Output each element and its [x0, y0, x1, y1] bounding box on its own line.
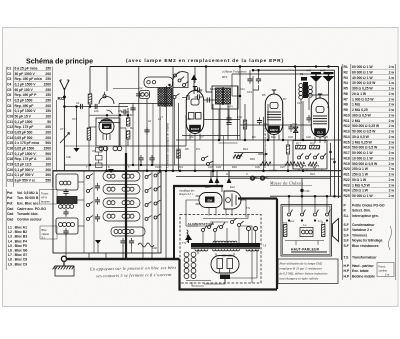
capacitor C unit A — [63, 189, 68, 197]
svg-text:EBF2: EBF2 — [270, 128, 278, 132]
node junction — [179, 169, 182, 172]
wire — [314, 169, 316, 171]
svg-text:Commande automatique de volume: Commande automatique de volume — [166, 122, 170, 168]
svg-text:R11: R11 — [271, 135, 276, 139]
svg-text:S.F: S.F — [344, 223, 349, 227]
svg-text:Interrupteur gén.: Interrupteur gén. — [352, 214, 379, 218]
wire x133 — [132, 103, 134, 165]
wire — [258, 70, 260, 76]
wire rail 3 — [232, 73, 331, 75]
handwritten note bottom left — [89, 265, 177, 279]
svg-text:200: 200 — [45, 125, 51, 129]
coil C loops — [59, 223, 75, 227]
svg-text:R3: R3 — [344, 76, 348, 80]
wire — [182, 97, 187, 99]
HP terminal 2 — [301, 219, 303, 221]
resistor R6 — [243, 120, 246, 129]
svg-text:Cad: Cad — [7, 217, 13, 221]
svg-text:H.P: H.P — [344, 269, 350, 273]
wire above thick bus — [125, 128, 127, 153]
wire hp2 — [317, 241, 319, 246]
svg-text:500 000 Ω 0,25 W: 500 000 Ω 0,25 W — [352, 124, 380, 128]
contact colA 2 — [87, 190, 90, 193]
wire left frame — [56, 100, 58, 171]
node junction — [239, 95, 242, 98]
switch contact T4 — [321, 156, 324, 159]
svg-text:R6: R6 — [344, 92, 348, 96]
coil unit C box — [56, 218, 78, 234]
svg-text:C19b: C19b — [155, 165, 162, 169]
resistor ladder r2 — [96, 156, 103, 161]
svg-text:2 x 175 pF mica: 2 x 175 pF mica — [15, 141, 40, 145]
node junction — [239, 65, 242, 68]
svg-text:2 w: 2 w — [389, 157, 395, 161]
wire osc line 2 — [172, 67, 174, 172]
svg-text:2 w: 2 w — [389, 140, 395, 144]
svg-text:C26: C26 — [255, 165, 260, 169]
svg-text:EL3: EL3 — [230, 185, 235, 189]
svg-text:R5: R5 — [344, 87, 348, 91]
svg-text:S.F: S.F — [344, 239, 349, 243]
node junction — [218, 139, 221, 142]
svg-text:250 Ω 1 W: 250 Ω 1 W — [352, 167, 369, 171]
svg-text:C22: C22 — [7, 178, 13, 182]
svg-text:7 w: 7 w — [389, 167, 395, 171]
wire to speaker — [332, 229, 333, 231]
svg-text:200: 200 — [45, 168, 51, 172]
svg-text:(avec lampe EM2 en remplacemen: (avec lampe EM2 en remplacement de la la… — [126, 58, 284, 63]
wire alim top rail — [203, 218, 248, 220]
node junction — [75, 105, 78, 108]
wire rail 140 — [176, 139, 341, 141]
svg-text:2 w: 2 w — [389, 103, 395, 107]
svg-text:R4: R4 — [130, 126, 134, 130]
svg-text:2 w: 2 w — [389, 162, 395, 166]
switch contact S2b — [178, 79, 181, 82]
thick chassis bus bottom — [64, 258, 180, 260]
switch contact T1 — [298, 156, 301, 159]
capacitor C10b — [144, 127, 149, 135]
svg-text:Petite Ondes PO-GO: Petite Ondes PO-GO — [352, 204, 385, 208]
node junction — [301, 195, 304, 198]
svg-text:Bloc: Bloc — [42, 228, 48, 232]
svg-text:R17: R17 — [296, 142, 301, 146]
ground arrow branch — [74, 148, 80, 152]
svg-text:50 pF 1500 V: 50 pF 1500 V — [15, 72, 36, 76]
svg-text:R25: R25 — [344, 194, 350, 198]
wire EM pin2 — [215, 208, 217, 216]
wire rail 119 — [204, 119, 241, 121]
tube V5 (magic eye EM2) — [196, 193, 223, 208]
wire sel lead4 — [238, 227, 240, 243]
HAUT-PARLEUR box — [281, 205, 332, 257]
svg-text:exc: exc — [290, 220, 295, 223]
resistor ladder r3 — [96, 163, 103, 168]
wire T1 lead2 — [228, 109, 230, 120]
svg-text:50: 50 — [47, 120, 51, 124]
svg-text:HF 6: HF 6 — [41, 196, 47, 200]
svg-text:C16: C16 — [7, 146, 13, 150]
transformer secondary winding b — [213, 249, 240, 251]
wire bank rail x158 — [157, 171, 159, 253]
svg-text:200: 200 — [45, 136, 51, 140]
svg-text:60 µF 150 V: 60 µF 150 V — [15, 88, 34, 92]
selector contact 6 — [238, 224, 241, 227]
wire — [64, 145, 96, 147]
svg-text:50 µF 15 V: 50 µF 15 V — [15, 115, 32, 119]
capacitor C41 — [120, 238, 125, 246]
capacitor C3b — [136, 94, 142, 96]
osc coil core line — [164, 87, 166, 107]
wire — [239, 67, 241, 97]
ground arrow top of bank — [108, 169, 114, 173]
wire osc 2 — [159, 107, 161, 171]
node junction — [221, 185, 224, 188]
svg-text:EM4: EM4 — [205, 185, 211, 189]
wire cap drop — [140, 161, 142, 165]
svg-text:H.P: H.P — [344, 274, 350, 278]
node rail 165 — [132, 164, 134, 166]
wire schematic frame right — [341, 67, 343, 261]
contact colC 1 — [154, 174, 157, 177]
tone block box — [293, 141, 327, 170]
svg-text:R14: R14 — [344, 135, 350, 139]
wire — [223, 136, 225, 172]
svg-text:2 w: 2 w — [389, 108, 395, 112]
parts list left rules — [6, 67, 52, 188]
input choke — [187, 230, 189, 242]
svg-text:20 Ω 1 W: 20 Ω 1 W — [352, 92, 367, 96]
svg-text:Sélect. Dim.: Sélect. Dim. — [352, 209, 371, 213]
wire EM pin — [208, 208, 210, 216]
node junction — [194, 169, 197, 172]
node junction — [282, 139, 285, 142]
wire — [120, 145, 186, 147]
svg-text:C20: C20 — [7, 168, 13, 172]
svg-text:R2: R2 — [344, 70, 348, 74]
svg-text:0,1 µF 500 V: 0,1 µF 500 V — [15, 168, 35, 172]
svg-text:2 MΩ 0,25: 2 MΩ 0,25 — [352, 108, 368, 112]
svg-text:2 w: 2 w — [389, 151, 395, 155]
tube V2 — [265, 90, 282, 135]
svg-text:Pot: Pot — [7, 201, 13, 205]
wire — [249, 70, 251, 76]
resistor R19 — [296, 162, 305, 166]
thick bus vertical 2 — [173, 187, 175, 259]
svg-text:300: 300 — [45, 173, 51, 177]
coil row 1b — [122, 174, 134, 178]
voice coil — [300, 228, 313, 237]
svg-text:L6 . Bloc G6: L6 . Bloc G6 — [8, 249, 27, 253]
svg-text:0,1 µF 1500 V: 0,1 µF 1500 V — [15, 152, 37, 156]
svg-text:Rep. 490 pF P: Rep. 490 pF P — [15, 93, 38, 97]
svg-text:Rep. 490 pF: Rep. 490 pF — [15, 104, 34, 108]
resistor ladder r1 — [96, 148, 103, 153]
parts list right block 2 — [344, 204, 385, 218]
wire — [306, 169, 308, 171]
wire — [212, 104, 214, 171]
svg-text:C5: C5 — [7, 88, 11, 92]
contact colB 1 — [145, 176, 148, 179]
resistor R10 — [286, 145, 289, 154]
capacitor C1 — [81, 104, 83, 109]
svg-text:S.F: S.F — [344, 233, 349, 237]
tube V6 (output, side view) — [224, 191, 241, 209]
svg-text:C24: C24 — [288, 135, 293, 139]
wire top drop x90 — [89, 67, 91, 95]
svg-text:C8: C8 — [7, 104, 11, 108]
wire — [221, 185, 223, 192]
svg-text:2 w: 2 w — [389, 124, 395, 128]
wire bank to bus — [151, 253, 153, 259]
svg-text:Cad: Cad — [7, 212, 13, 216]
svg-text:C1: C1 — [76, 101, 80, 105]
node rail 165 — [165, 170, 167, 172]
resistor R20 — [308, 162, 317, 166]
wire EL pin2 — [231, 209, 233, 216]
svg-text:T.S: T.S — [182, 241, 186, 245]
svg-text:2 w: 2 w — [389, 183, 395, 187]
wire T1 lead — [218, 109, 220, 140]
wire to T1 — [206, 91, 212, 93]
svg-text:C18: C18 — [264, 122, 269, 126]
svg-text:0,1 µF 1500 V: 0,1 µF 1500 V — [15, 83, 37, 87]
svg-text:L7: L7 — [160, 115, 163, 119]
wire V1 pin — [194, 134, 196, 141]
svg-text:9 t.: 9 t. — [42, 236, 46, 240]
wire — [224, 278, 226, 283]
resistor R3 — [127, 117, 130, 126]
speaker — [333, 219, 339, 242]
node junction — [119, 114, 122, 117]
svg-text:0,05 µF 500: 0,05 µF 500 — [15, 136, 33, 140]
switch contact S2c — [183, 84, 186, 87]
wire V1 cathode — [194, 140, 196, 171]
svg-text:30 Ω 0,5 W: 30 Ω 0,5 W — [352, 135, 370, 139]
IF T1 lattice — [216, 88, 231, 104]
svg-text:2 w: 2 w — [385, 273, 389, 277]
svg-text:P.: P. — [344, 209, 347, 213]
contact colA 1 — [87, 176, 90, 179]
svg-text:R16: R16 — [344, 146, 350, 150]
parts list left block 3 — [7, 207, 46, 221]
svg-text:L3 . Bloc B3: L3 . Bloc B3 — [8, 235, 27, 239]
svg-text:R23: R23 — [344, 183, 350, 187]
svg-text:L6: L6 — [148, 119, 151, 123]
wire sel lead — [202, 232, 204, 243]
coil under V4 — [99, 146, 108, 150]
node rail 165 — [89, 164, 91, 166]
wire — [302, 101, 304, 140]
svg-text:0,1 µF 500 V: 0,1 µF 500 V — [15, 173, 35, 177]
selector contact 4 — [220, 226, 223, 229]
svg-text:C30: C30 — [305, 189, 310, 193]
svg-text:10 000 Ω 1 W: 10 000 Ω 1 W — [352, 157, 373, 161]
node junction — [63, 105, 66, 108]
wire C14 lead — [253, 85, 259, 90]
note box — [278, 259, 338, 284]
HP terminal 3 — [314, 219, 316, 221]
svg-text:C15: C15 — [7, 141, 13, 145]
transformer TS core — [191, 243, 260, 248]
resistor R24 (field coil) — [284, 224, 287, 237]
wire V2 pin — [273, 135, 275, 141]
node junction — [333, 195, 336, 198]
coil row 4a — [107, 214, 115, 218]
node switch — [168, 84, 170, 86]
svg-text:1500: 1500 — [44, 146, 52, 150]
wire — [227, 104, 229, 140]
svg-text:Trimmers: Trimmers — [352, 233, 367, 237]
node junction — [212, 170, 215, 173]
svg-text:Cad: Cad — [7, 207, 13, 211]
label T2 — [301, 77, 307, 81]
svg-text:R5: R5 — [262, 93, 266, 97]
svg-text:C9: C9 — [198, 89, 202, 93]
up arrow alim — [185, 235, 192, 241]
filament dropper chains — [184, 252, 196, 278]
capacitor C unit C — [63, 228, 68, 236]
wafer row 1 outline — [103, 172, 140, 182]
svg-text:8 µF 550 V el.: 8 µF 550 V el. — [15, 178, 36, 182]
wire HP internal — [285, 240, 324, 242]
wire — [197, 249, 199, 254]
wire — [78, 181, 84, 183]
svg-text:C.A.V.: C.A.V. — [269, 169, 278, 173]
svg-text:Pot: Pot — [7, 196, 13, 200]
wire V4 grid — [89, 126, 96, 128]
ground chassis — [53, 266, 74, 269]
svg-text:C2: C2 — [7, 72, 11, 76]
svg-text:exc: exc — [283, 222, 288, 225]
coil row 4b — [122, 214, 134, 218]
svg-text:40 000 Ω 1 W: 40 000 Ω 1 W — [352, 76, 373, 80]
parts list right block 3 — [344, 223, 392, 250]
switch contact T2 — [306, 156, 309, 159]
node — [105, 169, 108, 172]
svg-text:2 w: 2 w — [389, 119, 395, 123]
antenna — [60, 80, 69, 171]
wire sel lead2 — [214, 232, 216, 243]
wire — [122, 245, 124, 259]
small loop coil — [140, 91, 150, 99]
resistor R18 — [310, 146, 321, 149]
wire — [228, 171, 230, 177]
svg-text:HAUT-PARLEUR: HAUT-PARLEUR — [291, 248, 320, 252]
wire HP drop 4 — [326, 196, 328, 212]
wire hp — [295, 241, 297, 246]
node junction — [287, 169, 290, 172]
svg-text:T.S: T.S — [344, 256, 350, 260]
svg-text:R14: R14 — [243, 147, 248, 151]
wire T2 lead — [300, 99, 302, 140]
svg-text:L5 . Bloc P5: L5 . Bloc P5 — [8, 244, 27, 248]
node junction — [288, 195, 291, 198]
svg-text:300 Ω 0,5 W: 300 Ω 0,5 W — [352, 113, 372, 117]
svg-text:T.S: T.S — [246, 206, 250, 210]
wire unit C lead — [65, 235, 67, 254]
svg-text:R20: R20 — [344, 167, 350, 171]
svg-text:C21: C21 — [7, 173, 13, 177]
wire — [127, 139, 129, 146]
svg-text:2 w: 2 w — [389, 135, 395, 139]
wire bank rail x84 — [83, 171, 85, 253]
wire osc drop — [138, 67, 140, 172]
node junction — [159, 169, 162, 172]
svg-text:R9: R9 — [344, 108, 348, 112]
svg-text:R11: R11 — [344, 119, 350, 123]
svg-text:1 w: 1 w — [389, 81, 395, 85]
down arrow in bank — [95, 240, 101, 244]
wire — [212, 171, 214, 177]
antenna trimmer arrow — [60, 133, 70, 144]
wire HP drop 2 — [301, 196, 303, 212]
wire — [216, 177, 218, 185]
HP contact 3 — [314, 213, 317, 216]
svg-text:500: 500 — [45, 152, 51, 156]
capacitor C9 — [195, 87, 203, 92]
svg-text:Bloc résistances: Bloc résistances — [352, 244, 379, 248]
coil under V4 b — [113, 146, 122, 150]
arrow above tubes x229 — [227, 178, 232, 184]
wire lamp bottom — [186, 280, 211, 282]
wire — [231, 74, 233, 96]
svg-text:300 Ω 0,25 W: 300 Ω 0,25 W — [352, 87, 373, 91]
svg-text:remplacer R 23 par 2 résistanc: remplacer R 23 par 2 résistances — [280, 267, 323, 271]
IF T2 right loops — [308, 86, 312, 98]
svg-text:50 000 Ω 1 W: 50 000 Ω 1 W — [352, 194, 373, 198]
svg-text:2 MΩ: 2 MΩ — [352, 119, 361, 123]
svg-text:H.P: H.P — [344, 264, 350, 268]
svg-text:C23: C23 — [216, 165, 221, 169]
svg-text:R9: R9 — [252, 135, 256, 139]
interrupter circles — [250, 176, 254, 180]
resistor R1b — [87, 127, 90, 140]
tube V3 — [311, 94, 328, 137]
wire lamp chain lead — [192, 282, 204, 286]
svg-text:R18: R18 — [310, 142, 315, 146]
wire — [287, 154, 289, 171]
wire bank rail x152 — [151, 171, 153, 253]
coil B core — [57, 197, 77, 204]
svg-text:Torsade bloc.: Torsade bloc. — [17, 212, 39, 216]
svg-text:1500: 1500 — [44, 83, 52, 87]
svg-text:lampes 6,3 v: lampes 6,3 v — [179, 193, 194, 196]
coil row 2b — [122, 187, 134, 191]
node chassis (ring terminal) — [61, 256, 66, 261]
wire — [219, 104, 221, 140]
wire V2 pin — [268, 135, 270, 141]
svg-text:Pour utilisation de la lampe E: Pour utilisation de la lampe EM2 — [279, 262, 323, 266]
wire alim top — [210, 221, 228, 223]
wire alim right drop2 — [256, 249, 258, 278]
svg-text:C18: C18 — [7, 157, 13, 161]
node junction — [212, 169, 215, 172]
wire — [321, 169, 323, 171]
svg-text:C2: C2 — [139, 86, 143, 90]
svg-text:Masse du Châssis: Masse du Châssis — [269, 181, 304, 186]
wire — [239, 96, 241, 140]
coil row 3a — [107, 201, 115, 205]
svg-text:0,1 µF 1500 V: 0,1 µF 1500 V — [15, 109, 37, 113]
svg-text:C27: C27 — [280, 165, 285, 169]
svg-text:0,5 µF 13.5: 0,5 µF 13.5 — [15, 162, 32, 166]
coil row 2a — [107, 187, 115, 191]
svg-text:C6b: C6b — [186, 117, 191, 121]
wire HT to V3 anode — [327, 95, 329, 107]
svg-text:L9 . Bloc C9: L9 . Bloc C9 — [8, 262, 27, 266]
node junction — [252, 69, 255, 72]
